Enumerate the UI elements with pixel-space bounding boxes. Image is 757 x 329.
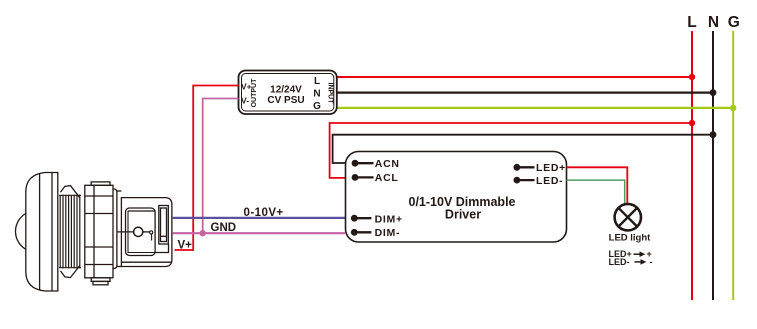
svg-text:L: L xyxy=(314,76,320,87)
sensor lock nut xyxy=(85,182,113,285)
wire GND (pink) sensor to DIM- xyxy=(173,232,345,234)
terminal DIM+ xyxy=(351,215,358,222)
sensor wing tab top xyxy=(61,186,80,198)
junction on N xyxy=(710,89,717,96)
sensor terminal panel xyxy=(126,208,156,256)
wire 0-10V+ (indigo) sensor to DIM+ xyxy=(173,217,345,219)
svg-text:DIM+: DIM+ xyxy=(375,213,403,225)
wire PSU G input (yellow-green) xyxy=(337,107,733,109)
svg-text:ACL: ACL xyxy=(375,172,399,184)
sensor cap/head xyxy=(26,173,58,292)
wire N (neutral, black vertical) xyxy=(712,31,714,300)
wire PSU N input (black) xyxy=(337,91,713,93)
junction GND/V- (pink) xyxy=(200,230,206,236)
junction ACL on L xyxy=(689,120,695,126)
svg-text:L: L xyxy=(687,14,696,31)
terminal LED+ xyxy=(514,164,521,171)
sensor wing tab bottom xyxy=(61,266,80,278)
wire LED+ to lamp (red) xyxy=(567,167,628,204)
wire PSU V- to GND junction (pink) xyxy=(203,99,239,234)
wire G (ground, yellow-green vertical) xyxy=(732,31,734,300)
sensor collar xyxy=(113,189,117,269)
sensor adjustment screw xyxy=(134,227,143,236)
wire ACL to L (red) xyxy=(330,123,692,178)
sensor threads xyxy=(59,195,81,269)
svg-text:CV PSU: CV PSU xyxy=(267,95,304,106)
junction on L xyxy=(689,74,695,80)
junction ACN on N xyxy=(710,131,717,138)
svg-text:LED-: LED- xyxy=(609,257,630,267)
terminal LED- xyxy=(514,177,521,184)
svg-text:LED light: LED light xyxy=(609,233,652,244)
svg-text:12/24V: 12/24V xyxy=(270,85,302,96)
svg-text:N: N xyxy=(313,89,320,100)
svg-text:V-: V- xyxy=(241,96,249,106)
lamp LED light symbol xyxy=(615,204,641,230)
wire PSU L input (red) xyxy=(337,76,692,78)
wire ACN to N (black) xyxy=(333,135,713,163)
svg-text:-: - xyxy=(650,257,653,267)
sensor lens dome xyxy=(15,214,25,250)
svg-text:GND: GND xyxy=(211,222,237,234)
svg-text:G: G xyxy=(728,14,740,31)
svg-text:G: G xyxy=(313,101,321,112)
junction on G xyxy=(730,105,736,111)
terminal DIM- xyxy=(351,229,358,236)
svg-text:ACN: ACN xyxy=(375,158,400,170)
svg-text:V+: V+ xyxy=(178,240,193,252)
wire L (line/live, red vertical) xyxy=(691,31,693,300)
sensor body xyxy=(121,198,171,267)
sensor terminal slot xyxy=(159,206,169,245)
terminal ACN xyxy=(352,160,359,167)
wire LED- to lamp (green) xyxy=(567,180,625,205)
svg-text:Driver: Driver xyxy=(445,208,481,222)
svg-text:N: N xyxy=(708,14,719,31)
terminal ACL xyxy=(352,174,359,181)
svg-text:0-10V+: 0-10V+ xyxy=(244,207,284,219)
PSU U1 box xyxy=(239,71,337,115)
svg-text:DIM-: DIM- xyxy=(375,227,401,239)
svg-text:INPUT: INPUT xyxy=(327,83,334,105)
svg-text:LED+: LED+ xyxy=(536,162,566,174)
svg-text:OUTPUT: OUTPUT xyxy=(251,78,258,108)
sensor panel wrap to slot xyxy=(155,244,168,253)
wire PSU V+ to sensor (red) xyxy=(175,86,239,251)
driver U2 box xyxy=(346,152,567,243)
photocell sensor (0-10V dimming photocontrol) xyxy=(15,173,171,292)
svg-text:LED-: LED- xyxy=(536,175,563,187)
